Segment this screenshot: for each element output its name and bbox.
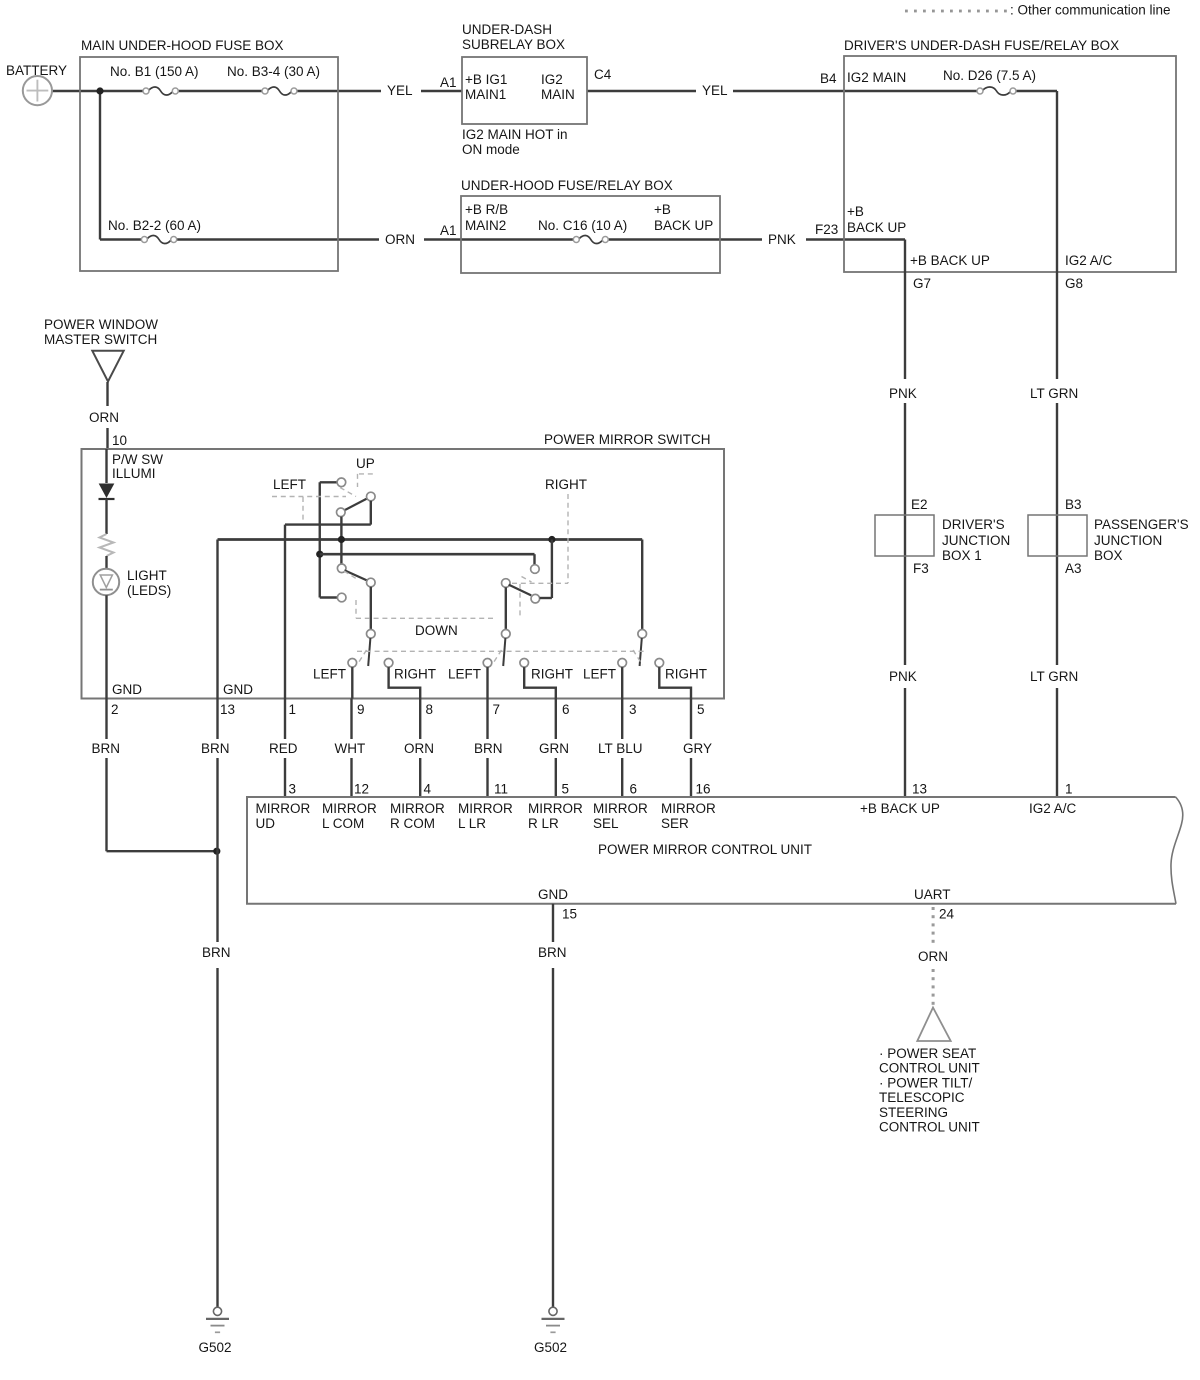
svg-text:UNDER-DASH: UNDER-DASH: [462, 22, 552, 37]
svg-text:L LR: L LR: [458, 816, 486, 831]
svg-text:JUNCTION: JUNCTION: [942, 533, 1010, 548]
svg-text:DRIVER'S UNDER-DASH FUSE/RELAY: DRIVER'S UNDER-DASH FUSE/RELAY BOX: [844, 38, 1119, 53]
svg-text:A1: A1: [440, 223, 457, 238]
svg-text:+B IG1: +B IG1: [465, 72, 507, 87]
svg-text:MAIN UNDER-HOOD FUSE BOX: MAIN UNDER-HOOD FUSE BOX: [81, 38, 284, 53]
svg-text:GND: GND: [112, 682, 142, 697]
svg-text:MIRROR: MIRROR: [322, 801, 377, 816]
svg-text:5: 5: [562, 782, 570, 797]
svg-text:IG2 MAIN HOT in: IG2 MAIN HOT in: [462, 127, 568, 142]
svg-text:LT GRN: LT GRN: [1030, 669, 1078, 684]
svg-text:+B: +B: [847, 204, 864, 219]
svg-text:MIRROR: MIRROR: [390, 801, 445, 816]
svg-text:1: 1: [1065, 782, 1073, 797]
svg-text:LT BLU: LT BLU: [598, 741, 643, 756]
svg-text:BACK UP: BACK UP: [654, 218, 713, 233]
svg-text:MASTER SWITCH: MASTER SWITCH: [44, 332, 157, 347]
svg-text:LEFT: LEFT: [583, 667, 616, 682]
svg-text:MIRROR: MIRROR: [661, 801, 716, 816]
svg-text:MAIN: MAIN: [541, 87, 575, 102]
svg-text:MIRROR: MIRROR: [593, 801, 648, 816]
svg-text:IG2 A/C: IG2 A/C: [1029, 801, 1077, 816]
svg-text:MAIN1: MAIN1: [465, 87, 506, 102]
svg-text:G502: G502: [534, 1340, 567, 1355]
svg-text:12: 12: [354, 782, 369, 797]
svg-text:G7: G7: [913, 276, 931, 291]
svg-text:UP: UP: [356, 456, 375, 471]
svg-text:8: 8: [426, 702, 434, 717]
svg-text:+B: +B: [654, 202, 671, 217]
svg-text:IG2 A/C: IG2 A/C: [1065, 253, 1113, 268]
svg-text:+B BACK UP: +B BACK UP: [860, 801, 940, 816]
svg-text:RIGHT: RIGHT: [394, 667, 436, 682]
svg-text:BRN: BRN: [92, 741, 121, 756]
svg-text:RIGHT: RIGHT: [531, 667, 573, 682]
svg-text:BRN: BRN: [538, 945, 567, 960]
svg-text:PNK: PNK: [768, 232, 796, 247]
svg-text:6: 6: [562, 702, 570, 717]
svg-text:G502: G502: [199, 1340, 232, 1355]
svg-text:BRN: BRN: [202, 945, 231, 960]
svg-text:PASSENGER'S: PASSENGER'S: [1094, 517, 1189, 532]
svg-text:BRN: BRN: [474, 741, 503, 756]
svg-text:B4: B4: [820, 71, 837, 86]
svg-text:10: 10: [112, 433, 127, 448]
svg-text:JUNCTION: JUNCTION: [1094, 533, 1162, 548]
svg-text:MAIN2: MAIN2: [465, 218, 506, 233]
svg-text:A1: A1: [440, 75, 457, 90]
svg-text:LIGHT: LIGHT: [127, 568, 167, 583]
svg-text:MIRROR: MIRROR: [458, 801, 513, 816]
svg-text:CONTROL UNIT: CONTROL UNIT: [879, 1061, 980, 1076]
svg-text:GRY: GRY: [683, 741, 712, 756]
svg-text:SEL: SEL: [593, 816, 619, 831]
svg-text:SER: SER: [661, 816, 689, 831]
svg-text:9: 9: [357, 702, 365, 717]
svg-text:SUBRELAY BOX: SUBRELAY BOX: [462, 37, 565, 52]
svg-text:MIRROR: MIRROR: [528, 801, 583, 816]
svg-text:G8: G8: [1065, 276, 1083, 291]
svg-text:STEERING: STEERING: [879, 1105, 948, 1120]
svg-text:P/W SW: P/W SW: [112, 452, 163, 467]
svg-text:4: 4: [424, 782, 432, 797]
svg-text:3: 3: [629, 702, 637, 717]
svg-text:GRN: GRN: [539, 741, 569, 756]
svg-text:ORN: ORN: [918, 949, 948, 964]
svg-text:MIRROR: MIRROR: [256, 801, 311, 816]
svg-text:L COM: L COM: [322, 816, 364, 831]
svg-text:UD: UD: [256, 816, 276, 831]
svg-text:F23: F23: [815, 222, 838, 237]
svg-text:B3: B3: [1065, 497, 1082, 512]
svg-text:· POWER TILT/: · POWER TILT/: [879, 1075, 973, 1090]
svg-text:E2: E2: [911, 497, 928, 512]
svg-text:1: 1: [289, 702, 297, 717]
svg-text:A3: A3: [1065, 561, 1082, 576]
svg-text:ORN: ORN: [385, 232, 415, 247]
svg-text:15: 15: [562, 907, 577, 922]
svg-text:: Other communication line: : Other communication line: [1010, 3, 1171, 18]
svg-text:ON mode: ON mode: [462, 142, 520, 157]
svg-text:YEL: YEL: [387, 83, 413, 98]
svg-text:GND: GND: [538, 887, 568, 902]
svg-text:No. B1 (150 A): No. B1 (150 A): [110, 64, 199, 79]
svg-text:RIGHT: RIGHT: [545, 477, 587, 492]
svg-text:C4: C4: [594, 67, 612, 82]
svg-text:PNK: PNK: [889, 669, 917, 684]
svg-text:16: 16: [696, 782, 711, 797]
svg-text:DOWN: DOWN: [415, 623, 458, 638]
svg-text:BOX 1: BOX 1: [942, 548, 982, 563]
svg-text:LEFT: LEFT: [273, 477, 306, 492]
svg-text:GND: GND: [223, 682, 253, 697]
svg-text:DRIVER'S: DRIVER'S: [942, 517, 1005, 532]
svg-text:BATTERY: BATTERY: [6, 63, 67, 78]
svg-text:No. B3-4 (30 A): No. B3-4 (30 A): [227, 64, 320, 79]
svg-text:TELESCOPIC: TELESCOPIC: [879, 1090, 965, 1105]
svg-text:11: 11: [494, 782, 508, 797]
svg-text:IG2 MAIN: IG2 MAIN: [847, 70, 906, 85]
svg-text:WHT: WHT: [335, 741, 366, 756]
svg-text:13: 13: [912, 782, 927, 797]
svg-text:YEL: YEL: [702, 83, 728, 98]
svg-text:POWER MIRROR CONTROL UNIT: POWER MIRROR CONTROL UNIT: [598, 842, 812, 857]
svg-text:PNK: PNK: [889, 386, 917, 401]
svg-text:BACK UP: BACK UP: [847, 220, 906, 235]
svg-text:5: 5: [697, 702, 705, 717]
svg-text:POWER MIRROR SWITCH: POWER MIRROR SWITCH: [544, 432, 711, 447]
svg-text:R LR: R LR: [528, 816, 559, 831]
svg-text:2: 2: [111, 702, 119, 717]
svg-text:LEFT: LEFT: [313, 667, 346, 682]
svg-text:13: 13: [220, 702, 235, 717]
svg-text:BOX: BOX: [1094, 548, 1123, 563]
svg-text:3: 3: [289, 782, 297, 797]
svg-text:+B R/B: +B R/B: [465, 202, 508, 217]
svg-text:No. B2-2 (60 A): No. B2-2 (60 A): [108, 218, 201, 233]
svg-text:ILLUMI: ILLUMI: [112, 466, 156, 481]
svg-text:+B BACK UP: +B BACK UP: [910, 253, 990, 268]
svg-text:LEFT: LEFT: [448, 667, 481, 682]
svg-text:ORN: ORN: [89, 410, 119, 425]
svg-text:RIGHT: RIGHT: [665, 667, 707, 682]
svg-text:BRN: BRN: [201, 741, 230, 756]
svg-text:LT GRN: LT GRN: [1030, 386, 1078, 401]
svg-text:POWER WINDOW: POWER WINDOW: [44, 317, 158, 332]
svg-text:No. C16 (10 A): No. C16 (10 A): [538, 218, 627, 233]
svg-text:24: 24: [939, 907, 955, 922]
svg-text:7: 7: [493, 702, 501, 717]
svg-text:6: 6: [630, 782, 638, 797]
svg-text:UNDER-HOOD FUSE/RELAY BOX: UNDER-HOOD FUSE/RELAY BOX: [461, 178, 673, 193]
svg-text:UART: UART: [914, 887, 951, 902]
svg-text:CONTROL UNIT: CONTROL UNIT: [879, 1120, 980, 1135]
svg-text:No. D26 (7.5 A): No. D26 (7.5 A): [943, 68, 1036, 83]
svg-text:IG2: IG2: [541, 72, 563, 87]
svg-text:· POWER SEAT: · POWER SEAT: [879, 1046, 976, 1061]
svg-text:F3: F3: [913, 561, 929, 576]
svg-text:ORN: ORN: [404, 741, 434, 756]
svg-text:(LEDS): (LEDS): [127, 583, 171, 598]
svg-text:R COM: R COM: [390, 816, 435, 831]
svg-text:RED: RED: [269, 741, 298, 756]
